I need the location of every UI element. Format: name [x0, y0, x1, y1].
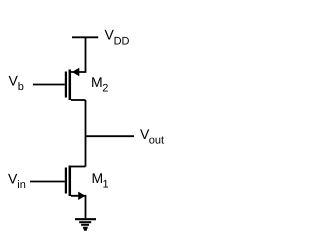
label Vin [8, 171, 26, 192]
svg-text:1: 1 [103, 179, 109, 191]
svg-text:DD: DD [114, 36, 130, 48]
wire node Vout branch [86, 135, 135, 137]
label Vb [9, 73, 24, 94]
M1 gate plate [65, 168, 67, 194]
transistor M2 (PMOS) [66, 68, 86, 100]
wire VDD to M2 source [71, 37, 86, 72]
svg-text:M: M [92, 170, 104, 186]
M1 channel bar [69, 166, 72, 197]
label VDD [105, 27, 130, 48]
M2 drain lead [71, 99, 86, 101]
ground symbol [75, 219, 96, 231]
wire Vb to M2 gate [33, 84, 65, 86]
svg-text:2: 2 [102, 83, 108, 95]
M1 source arrow (points away from channel) [78, 192, 85, 200]
wire Vin to M1 gate [30, 181, 65, 183]
svg-text:out: out [149, 135, 164, 147]
label M1 [92, 170, 109, 191]
svg-text:in: in [17, 179, 26, 191]
label Vout [140, 126, 164, 147]
M2 channel bar [69, 70, 72, 101]
svg-text:b: b [18, 81, 24, 93]
wire M2 drain to M1 drain (through node Vout) [85, 100, 87, 167]
M2 source arrow (points toward channel) [72, 68, 79, 77]
power rail VDD bar [72, 36, 98, 38]
M2 gate plate [65, 72, 67, 98]
svg-text:M: M [91, 74, 103, 90]
M1 source lead [71, 196, 86, 218]
label M2 [91, 74, 108, 95]
M1 drain lead [71, 166, 86, 168]
transistor M1 (NMOS) [66, 166, 86, 219]
